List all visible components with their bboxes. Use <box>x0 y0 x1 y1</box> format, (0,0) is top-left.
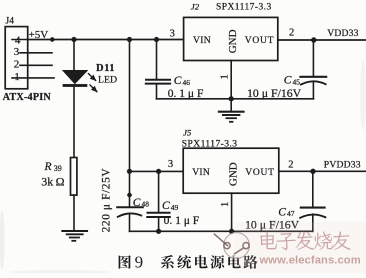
label R39 <box>44 161 62 173</box>
connector J4 <box>5 16 28 88</box>
svg-text:GND: GND <box>228 162 240 186</box>
svg-text:10 μ F/16V: 10 μ F/16V <box>247 86 302 100</box>
svg-text:J2: J2 <box>191 1 200 11</box>
wire VOUT to PVDD33 <box>279 170 366 172</box>
svg-text:220 μ F/25V: 220 μ F/25V <box>101 168 113 233</box>
junction dot on +5V rail <box>50 37 54 41</box>
node: J5 branch junction on +5V rail <box>127 37 132 42</box>
capacitor C48 (polarized) <box>117 207 143 231</box>
junction dot above C48 <box>127 193 131 197</box>
svg-text:2: 2 <box>14 58 20 70</box>
watermark text 电子发烧友 <box>260 231 350 250</box>
node: GND junction <box>229 96 234 101</box>
node: C47 junction <box>310 169 315 174</box>
svg-text:0. 1 μ F: 0. 1 μ F <box>164 215 200 227</box>
LED D11 <box>63 71 97 92</box>
svg-text:VOUT: VOUT <box>245 167 274 178</box>
svg-text:1: 1 <box>220 202 231 207</box>
svg-text:2: 2 <box>289 28 294 39</box>
svg-text:46: 46 <box>183 78 191 87</box>
label C49 <box>162 200 178 212</box>
svg-text:VOUT: VOUT <box>245 35 274 46</box>
wire rail to LED <box>73 40 75 72</box>
wire +5V rail <box>28 39 184 41</box>
node: VIN tap junction <box>127 169 132 174</box>
wire bottom rail (C48/C49/GND/C47) <box>130 230 313 232</box>
node: C49 bottom junction <box>156 229 161 234</box>
svg-text:4: 4 <box>15 34 21 46</box>
svg-text:49: 49 <box>171 203 179 212</box>
svg-text:C: C <box>284 75 292 87</box>
svg-text:+5V: +5V <box>29 29 49 41</box>
svg-text:3: 3 <box>14 46 20 58</box>
svg-text:VDD33: VDD33 <box>327 28 358 39</box>
svg-text:C: C <box>174 75 182 87</box>
svg-text:C: C <box>162 200 170 212</box>
pin 1 <box>12 71 54 83</box>
wire rail down to J5 VIN / C48 <box>129 40 131 207</box>
svg-text:2: 2 <box>288 159 293 170</box>
resistor R39 <box>71 158 77 196</box>
capacitor C46 <box>146 40 170 99</box>
svg-text:LED: LED <box>98 75 117 86</box>
svg-text:VIN: VIN <box>193 35 211 46</box>
label C48 <box>133 197 149 209</box>
svg-text:C: C <box>133 197 141 209</box>
svg-text:3k Ω: 3k Ω <box>41 175 64 189</box>
watermark logo circle <box>214 233 250 259</box>
label C46 <box>174 75 190 87</box>
svg-text:SPX1117-3.3: SPX1117-3.3 <box>182 140 238 150</box>
capacitor C49 <box>147 171 170 231</box>
svg-text:R: R <box>44 161 52 173</box>
pin 2 <box>14 58 52 70</box>
ground (below R39) <box>62 231 87 241</box>
svg-text:9: 9 <box>135 253 144 272</box>
wire branch to J5 VIN <box>130 170 184 172</box>
svg-text:1: 1 <box>14 71 19 83</box>
svg-text:D11: D11 <box>96 63 115 74</box>
svg-text:1: 1 <box>220 74 231 79</box>
svg-text:ATX-4PIN: ATX-4PIN <box>3 92 52 103</box>
wire C46/GND/C45 bottom <box>157 98 314 100</box>
svg-text:3: 3 <box>170 28 175 39</box>
capacitor C45 (polarized) <box>300 40 326 99</box>
svg-text:GND: GND <box>227 29 239 53</box>
label C47 <box>278 206 294 218</box>
wire LED to R39 <box>73 87 75 158</box>
svg-text:39: 39 <box>54 164 62 173</box>
svg-text:VIN: VIN <box>192 167 210 178</box>
label C45 <box>284 75 300 87</box>
svg-text:J5: J5 <box>183 128 192 138</box>
svg-text:45: 45 <box>293 77 301 86</box>
capacitor C47 (polarized) <box>300 171 325 231</box>
svg-text:SPX1117-3.3: SPX1117-3.3 <box>216 3 272 13</box>
wire J5 GND pin down <box>231 193 233 231</box>
node: LED branch junction <box>72 37 77 42</box>
node: J5 GND bottom junction <box>229 229 234 234</box>
pin 4 <box>12 34 28 46</box>
svg-text:J4: J4 <box>6 16 15 26</box>
node: C45 junction <box>311 37 316 42</box>
pin 3 <box>14 46 52 58</box>
svg-text:3: 3 <box>168 159 173 170</box>
node: C46 junction on +5V rail <box>154 37 159 42</box>
ground (J2) <box>219 112 244 122</box>
op-amp/regulator U-box J2 <box>184 17 278 60</box>
op-amp/regulator U-box J5 <box>183 148 279 193</box>
svg-text:48: 48 <box>142 200 150 209</box>
watermark wash <box>235 222 366 273</box>
wire R39 to ground <box>73 195 75 231</box>
svg-text:PVDD33: PVDD33 <box>324 159 361 170</box>
wire VOUT to VDD33 <box>278 39 366 41</box>
caption: 图9 系统电源电路 <box>119 253 258 272</box>
svg-text:www.elecfans.com: www.elecfans.com <box>259 254 361 266</box>
wire J2 GND pin down <box>230 61 232 112</box>
node: C49 junction on VIN wire <box>156 169 161 174</box>
